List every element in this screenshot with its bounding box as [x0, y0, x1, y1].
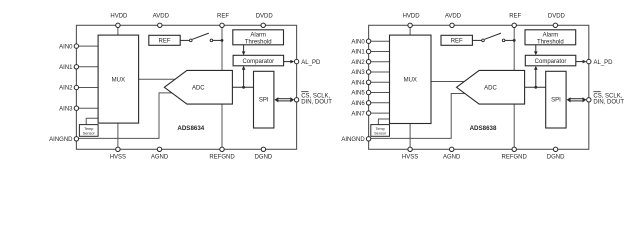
junction ADC output ADS8638 [534, 86, 537, 89]
svg-text:REFGND: REFGND [209, 155, 235, 161]
pin AIN4 ADS8638 [366, 80, 370, 84]
double arrow SPI bus ADS8634 [274, 97, 294, 102]
svg-text:REF: REF [509, 14, 521, 20]
wire AIN2 to MUX ADS8638 [369, 61, 390, 63]
svg-text:AIN3: AIN3 [351, 70, 365, 76]
REF block ADS8634 [149, 35, 180, 45]
pin AIN1 ADS8638 [366, 49, 370, 53]
alarm threshold block ADS8638 [525, 30, 576, 46]
pin DVDD ADS8638 [553, 23, 557, 27]
pin SPI bus ADS8634 [294, 98, 298, 102]
pin AIN6 ADS8638 [366, 101, 370, 105]
pin AIN7 ADS8638 [366, 111, 370, 115]
svg-text:AIN0: AIN0 [59, 44, 73, 50]
switch REF enable ADS8638 [472, 33, 514, 42]
svg-text:AIN1: AIN1 [59, 65, 73, 71]
svg-text:HVDD: HVDD [110, 14, 128, 20]
label CS SCLK DIN DOUT ADS8634 [301, 92, 332, 106]
wire ADC to SPI ADS8634 [232, 86, 253, 88]
arrow alarm threshold to comparator ADS8634 [242, 45, 246, 56]
svg-text:AVDD: AVDD [445, 14, 462, 20]
SPI block ADS8638 [546, 71, 566, 128]
wire AIN1 to MUX ADS8638 [369, 51, 390, 53]
ADC block ADS8634 [164, 70, 232, 104]
svg-text:CS, SCLK,: CS, SCLK, [593, 93, 622, 99]
pin AINGND ADS8634 [74, 137, 78, 141]
pin AVDD ADS8634 [158, 23, 162, 27]
svg-text:Threshold: Threshold [537, 39, 564, 45]
junction ADC output ADS8634 [242, 86, 245, 89]
junction switch to REF net ADS8638 [513, 39, 516, 42]
svg-text:AINGND: AINGND [341, 137, 365, 143]
wire temp sensor to MUX ADS8638 [378, 119, 389, 125]
svg-text:AINGND: AINGND [49, 137, 73, 143]
pin AGND ADS8638 [450, 147, 454, 151]
pin AIN3 ADS8638 [366, 70, 370, 74]
wire AIN0 to MUX ADS8638 [369, 40, 390, 42]
svg-text:MUX: MUX [112, 77, 125, 83]
pin AIN3 ADS8634 [74, 106, 78, 110]
svg-text:DGND: DGND [547, 155, 565, 161]
wire AIN1 to MUX ADS8634 [76, 66, 98, 68]
wire AIN7 to MUX ADS8638 [369, 112, 390, 114]
svg-text:AIN0: AIN0 [351, 39, 365, 45]
arrow ADC output to comparator ADS8634 [242, 66, 246, 88]
wire AIN3 to MUX ADS8634 [76, 107, 98, 109]
svg-text:AIN2: AIN2 [351, 60, 365, 66]
svg-text:DGND: DGND [255, 155, 273, 161]
svg-text:Comparator: Comparator [535, 59, 567, 65]
wire temp sensor to MUX ADS8634 [86, 118, 98, 124]
pin HVDD ADS8638 [408, 23, 412, 27]
wire AINGND to ADC and AGND region ADS8638 [369, 94, 466, 139]
svg-text:REF: REF [217, 14, 229, 20]
svg-text:ADS8634: ADS8634 [177, 125, 204, 132]
svg-text:MUX: MUX [404, 78, 417, 84]
wire REF net vertical ADS8634 (REF pin to REFGND pin) [221, 25, 223, 149]
svg-text:Threshold: Threshold [245, 39, 272, 45]
svg-text:Comparator: Comparator [242, 59, 274, 65]
svg-text:Sensor: Sensor [83, 132, 96, 136]
pin AIN1 ADS8634 [74, 65, 78, 69]
svg-text:HVSS: HVSS [110, 155, 126, 161]
pin AIN5 ADS8638 [366, 90, 370, 94]
pin DVDD ADS8634 [261, 23, 265, 27]
wire HVDD to MUX ADS8634 [117, 25, 119, 35]
pin SPI bus ADS8638 [587, 98, 591, 102]
wire AIN5 to MUX ADS8638 [369, 92, 390, 94]
svg-text:ADC: ADC [484, 86, 497, 92]
svg-text:Alarm: Alarm [250, 33, 266, 39]
svg-text:AIN5: AIN5 [351, 91, 365, 97]
svg-text:ADC: ADC [192, 86, 205, 92]
svg-text:AGND: AGND [443, 155, 461, 161]
pin AIN0 ADS8638 [366, 39, 370, 43]
wire MUX to HVSS ADS8638 [409, 124, 411, 150]
svg-text:AIN6: AIN6 [351, 101, 365, 107]
wire REF net vertical ADS8638 (REF pin to REFGND pin) [513, 25, 515, 149]
IC outline ADS8638 [369, 25, 589, 149]
svg-text:REF: REF [451, 39, 463, 45]
pin REF ADS8634 [220, 23, 224, 27]
wire MUX to HVSS ADS8634 [117, 123, 119, 149]
svg-text:DVDD: DVDD [548, 14, 566, 20]
wire AIN0 to MUX ADS8634 [76, 45, 98, 47]
svg-text:HVDD: HVDD [403, 14, 421, 20]
pin AGND ADS8634 [157, 147, 161, 151]
svg-text:Alarm: Alarm [543, 33, 559, 39]
svg-text:Temp: Temp [84, 127, 93, 131]
MUX block ADS8634 [98, 35, 139, 123]
pin AIN2 ADS8634 [74, 85, 78, 89]
svg-text:AGND: AGND [151, 155, 169, 161]
temp sensor block ADS8638 [371, 125, 390, 137]
arrow comparator to AL_PD pin ADS8638 [576, 60, 587, 64]
pin HVDD ADS8634 [116, 23, 120, 27]
svg-text:SPI: SPI [259, 98, 269, 104]
wire AIN6 to MUX ADS8638 [369, 102, 390, 104]
arrow ADC output to comparator ADS8638 [534, 66, 538, 88]
wire HVDD to MUX ADS8638 [409, 25, 411, 35]
pin HVSS ADS8638 [408, 147, 412, 151]
comparator block ADS8634 [233, 55, 284, 66]
temp sensor block ADS8634 [79, 125, 98, 137]
svg-text:DVDD: DVDD [256, 14, 274, 20]
wire MUX to ADC ADS8634 [139, 78, 176, 80]
double arrow SPI bus ADS8638 [567, 97, 587, 102]
svg-text:AL_PD: AL_PD [594, 60, 614, 66]
switch REF enable ADS8634 [180, 33, 222, 42]
SPI block ADS8634 [254, 71, 274, 128]
svg-text:AIN3: AIN3 [59, 106, 73, 112]
svg-text:DIN, DOUT: DIN, DOUT [301, 100, 332, 106]
svg-text:DIN, DOUT: DIN, DOUT [593, 100, 624, 106]
svg-text:AIN4: AIN4 [351, 81, 365, 87]
MUX block ADS8638 [390, 35, 432, 123]
pin REF ADS8638 [512, 23, 516, 27]
pin DGND ADS8638 [553, 147, 557, 151]
wire AIN4 to MUX ADS8638 [369, 81, 390, 83]
svg-text:AL_PD: AL_PD [301, 60, 321, 66]
svg-text:Sensor: Sensor [374, 132, 387, 136]
alarm threshold block ADS8634 [233, 30, 284, 46]
pin DGND ADS8634 [261, 147, 265, 151]
svg-text:Temp: Temp [376, 127, 385, 131]
pin AIN2 ADS8638 [366, 60, 370, 64]
svg-text:AIN2: AIN2 [59, 86, 73, 92]
arrow comparator to AL_PD pin ADS8634 [284, 60, 295, 64]
label CS SCLK DIN DOUT ADS8638 [593, 92, 624, 106]
wire AIN2 to MUX ADS8634 [76, 87, 98, 89]
wire ADC to SPI ADS8638 [525, 86, 546, 88]
ADC block ADS8638 [457, 70, 525, 104]
pin REFGND ADS8638 [512, 147, 516, 151]
svg-text:AIN7: AIN7 [351, 111, 365, 117]
svg-text:REF: REF [159, 39, 171, 45]
pin AL_PD ADS8638 [587, 59, 591, 63]
svg-text:SPI: SPI [551, 98, 561, 104]
pin AVDD ADS8638 [450, 23, 454, 27]
svg-text:HVSS: HVSS [402, 155, 418, 161]
svg-text:ADS8638: ADS8638 [470, 125, 497, 132]
pin REFGND ADS8634 [220, 147, 224, 151]
REF block ADS8638 [441, 35, 472, 45]
junction switch to REF net ADS8634 [221, 39, 224, 42]
svg-text:REFGND: REFGND [502, 155, 528, 161]
comparator block ADS8638 [525, 55, 576, 66]
pin AL_PD ADS8634 [294, 59, 298, 63]
svg-text:AIN1: AIN1 [351, 50, 365, 56]
pin AIN0 ADS8634 [74, 44, 78, 48]
pin AINGND ADS8638 [366, 137, 370, 141]
wire MUX to ADC ADS8638 [431, 81, 465, 83]
arrow alarm threshold to comparator ADS8638 [534, 45, 538, 56]
svg-text:CS, SCLK,: CS, SCLK, [301, 93, 330, 99]
pin HVSS ADS8634 [116, 147, 120, 151]
wire AIN3 to MUX ADS8638 [369, 71, 390, 73]
wire AINGND to ADC and AGND region ADS8634 [76, 93, 172, 138]
svg-text:AVDD: AVDD [153, 14, 170, 20]
IC outline ADS8634 [76, 25, 296, 149]
